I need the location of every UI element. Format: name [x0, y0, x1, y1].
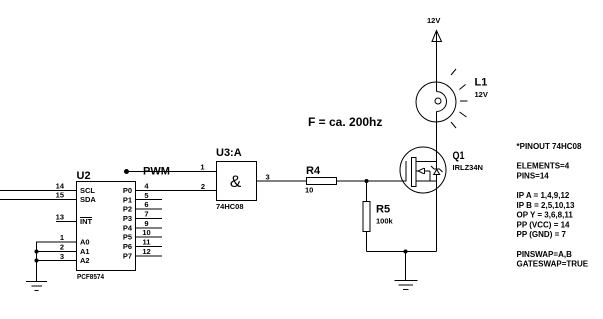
svg-text:PCF8574: PCF8574: [77, 272, 105, 281]
svg-text:3: 3: [60, 252, 64, 261]
body diode zener: [431, 162, 443, 182]
body arrow head: [418, 168, 424, 174]
wire A0 pin 1: [36, 241, 76, 243]
svg-text:1: 1: [60, 233, 64, 242]
drain channel line: [416, 161, 437, 163]
svg-text:PP (GND) = 7: PP (GND) = 7: [517, 230, 567, 239]
svg-text:10: 10: [305, 186, 313, 195]
gate plate: [405, 161, 407, 182]
svg-text:A1: A1: [80, 247, 90, 256]
svg-text:74HC08: 74HC08: [216, 202, 244, 211]
svg-text:IP A = 1,4,9,12: IP A = 1,4,9,12: [517, 191, 570, 200]
svg-text:R4: R4: [306, 165, 321, 177]
note PINOUT text block: [517, 142, 589, 269]
svg-text:P1: P1: [123, 195, 132, 204]
pin stub P5: [136, 236, 162, 238]
power 12V: [432, 31, 442, 43]
wire P0 to gate input 2: [136, 190, 216, 192]
ground right: [395, 281, 418, 290]
svg-text:SDA: SDA: [80, 195, 96, 204]
svg-text:P6: P6: [123, 242, 132, 251]
body wire: [425, 170, 430, 172]
filament loop: [437, 92, 447, 112]
wire SCL from left edge: [0, 190, 76, 192]
pin stub P4: [136, 227, 162, 229]
MOSFET Q1 IRLZ34N: [400, 147, 446, 193]
svg-text:INT: INT: [80, 217, 93, 226]
svg-text:12V: 12V: [427, 16, 440, 25]
svg-text:7: 7: [144, 210, 148, 219]
pin stub P2: [136, 208, 162, 210]
svg-text:2: 2: [60, 243, 64, 252]
svg-text:P2: P2: [123, 205, 132, 214]
svg-text:ELEMENTS=4: ELEMENTS=4: [517, 162, 570, 171]
svg-text:PINS=14: PINS=14: [517, 171, 550, 180]
body stub: [416, 170, 419, 172]
pin stub P3: [136, 218, 162, 220]
resistor R4: [307, 178, 367, 185]
svg-text:P7: P7: [123, 251, 132, 260]
svg-text:12: 12: [142, 247, 150, 256]
svg-text:2: 2: [201, 182, 205, 191]
pin stub P1: [136, 199, 162, 201]
node junction A2: [35, 259, 39, 263]
svg-text:15: 15: [56, 191, 64, 200]
wire INT stub pin 13: [56, 221, 76, 223]
svg-text:P4: P4: [123, 223, 133, 232]
wire ground stem right: [405, 252, 407, 281]
channel plate: [412, 158, 417, 187]
wire SDA from left edge: [0, 199, 76, 201]
wire drain rail: [367, 42, 437, 281]
svg-text:U3:A: U3:A: [216, 147, 242, 159]
svg-text:9: 9: [144, 219, 148, 228]
svg-text:L1: L1: [475, 77, 488, 89]
AND gate U3:A 74HC08: [217, 162, 307, 201]
svg-text:12V: 12V: [475, 90, 488, 99]
svg-text:OP Y = 3,6,8,11: OP Y = 3,6,8,11: [517, 211, 574, 220]
svg-text:3: 3: [266, 173, 270, 182]
svg-text:PP (VCC) = 14: PP (VCC) = 14: [517, 220, 571, 229]
wire gate output to R4: [257, 180, 307, 182]
svg-text:PINSWAP=A,B: PINSWAP=A,B: [517, 250, 573, 259]
svg-text:F = ca. 200hz: F = ca. 200hz: [308, 115, 382, 129]
svg-text:100k: 100k: [376, 217, 394, 226]
svg-text:U2: U2: [77, 170, 91, 182]
ground left: [26, 281, 47, 283]
IC U2 PCF8574: [77, 182, 136, 271]
svg-text:GATESWAP=TRUE: GATESWAP=TRUE: [517, 260, 589, 269]
lamp L1: [416, 69, 468, 128]
svg-text:10: 10: [142, 228, 150, 237]
wire junction to MOSFET gate: [367, 180, 407, 182]
svg-text:6: 6: [144, 200, 148, 209]
node source/ground junction: [404, 250, 408, 254]
node junction A1: [35, 250, 39, 254]
svg-text:13: 13: [56, 213, 64, 222]
svg-text:&: &: [230, 172, 242, 191]
svg-text:IP B = 2,5,10,13: IP B = 2,5,10,13: [517, 201, 575, 210]
svg-text:SCL: SCL: [80, 186, 95, 195]
node junction R4/R5/gate: [365, 179, 369, 183]
node PWM: [124, 169, 129, 174]
wire A2 pin 3: [36, 260, 76, 262]
svg-text:R5: R5: [376, 204, 390, 216]
rays: [451, 69, 456, 75]
wire source bottom horizontal: [367, 251, 437, 253]
svg-text:PWM: PWM: [143, 166, 170, 178]
svg-text:IRLZ34N: IRLZ34N: [453, 163, 483, 172]
svg-text:P0: P0: [123, 186, 132, 195]
svg-text:14: 14: [56, 182, 65, 191]
svg-text:P3: P3: [123, 214, 132, 223]
wire A1 pin 2: [36, 251, 76, 253]
pin stub P7: [136, 255, 162, 257]
source channel line: [416, 180, 437, 182]
svg-text:A2: A2: [80, 256, 90, 265]
svg-text:5: 5: [144, 191, 148, 200]
resistor R5: [363, 181, 370, 252]
svg-text:*PINOUT 74HC08: *PINOUT 74HC08: [517, 142, 582, 151]
svg-text:1: 1: [200, 163, 204, 172]
wire source to bottom: [436, 181, 438, 252]
wire address bus vertical to ground: [36, 242, 38, 281]
svg-text:11: 11: [143, 238, 151, 247]
wire PWM to gate input 1: [127, 171, 217, 173]
svg-text:A0: A0: [80, 238, 90, 247]
body arrow bar: [424, 168, 426, 174]
pin stub P6: [136, 246, 162, 248]
svg-text:P5: P5: [123, 233, 132, 242]
svg-text:Q1: Q1: [453, 150, 465, 162]
INT overline: [80, 217, 92, 219]
